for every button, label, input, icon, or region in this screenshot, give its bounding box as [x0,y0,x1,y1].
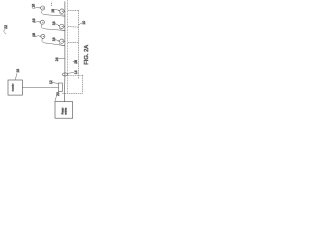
connector ellipse [62,73,67,76]
svg-text:16: 16 [52,37,56,41]
leader 16 to lamp L3 [34,36,41,37]
lamp L1 left circle [41,6,45,10]
wire lamp L1 to bus [42,10,65,16]
wire lamp L3 to bus [42,39,65,46]
svg-text:16: 16 [52,21,56,25]
leader 16 to lamp R3 [55,40,59,41]
power source box [55,102,73,119]
lamp L2 left circle [40,20,44,24]
leader 24 tick [58,57,64,59]
box 12 [58,83,62,92]
svg-text:10: 10 [82,21,86,25]
wire: dashed row 2 horizontal [68,26,78,28]
svg-text:16: 16 [32,33,36,37]
leader 10 [79,23,82,25]
wire: solid power bus vertical [63,2,66,102]
leader 22 hook [4,29,6,34]
wire lamp R3 tail to bus [60,43,65,46]
controller box [8,80,22,95]
svg-text:16: 16 [32,18,36,22]
svg-text:16: 16 [31,4,35,8]
svg-text:18: 18 [16,69,20,73]
wire controller to box 12 [22,86,58,88]
leader 16 to lamp L1 [33,7,41,8]
dashed enclosure right [82,75,84,93]
dots continuation marks [51,3,52,4]
leader 20 [55,95,57,101]
lamp R3 right circle [60,39,64,43]
leader 16 to lamp R1 [54,9,59,10]
svg-text:14: 14 [74,70,78,74]
leader 18 [15,73,17,79]
lamp R1 right circle [60,9,64,13]
lamp R2 right circle [60,24,64,28]
wire: dashed row 3 horizontal [68,41,78,43]
svg-text:24: 24 [55,57,59,61]
leader 26 tick [73,61,75,63]
svg-text:source: source [64,107,67,115]
svg-text:FIG. 2A: FIG. 2A [84,45,90,65]
wire lamp R1 tail to bus [60,13,65,16]
dashed enclosure top [68,74,82,76]
wire lamp R2 tail to bus [60,28,65,31]
dashed enclosure bottom [63,92,83,94]
leader 16 to lamp R2 [55,24,59,26]
leader 12 [52,82,59,85]
wire: dotted bus vertical [66,0,68,93]
svg-text:Power: Power [61,108,64,115]
wire: dashed return vertical [77,10,79,78]
svg-text:12: 12 [49,80,53,84]
svg-text:22: 22 [4,25,8,29]
svg-text:26: 26 [74,60,78,64]
svg-text:Controller: Controller [11,83,14,91]
wire lamp L2 to bus [41,24,64,30]
leader 14 to ellipse [68,72,74,73]
leader 16 to lamp L2 [33,22,40,23]
svg-text:16: 16 [51,9,55,13]
lamp L3 left circle [41,34,45,38]
wire: dashed row 1 horizontal [68,9,78,11]
